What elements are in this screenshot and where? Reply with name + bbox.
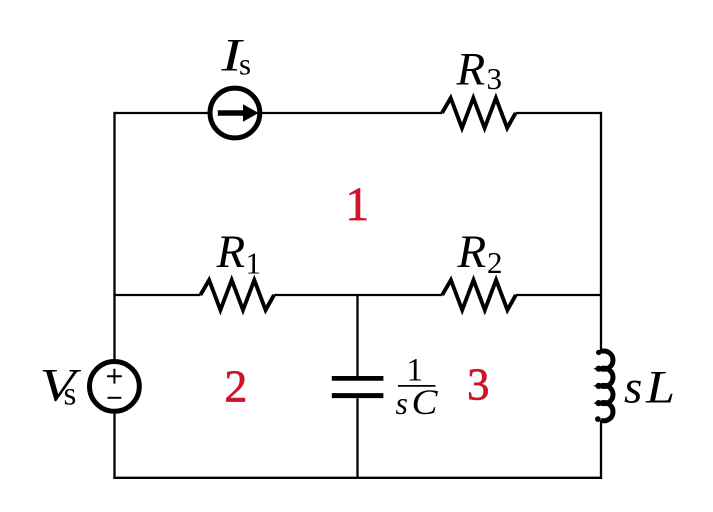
svg-text:1: 1 (246, 246, 262, 281)
wire middle-center segment (274, 294, 442, 296)
svg-text:1: 1 (345, 178, 369, 231)
wire left vertical upper (113, 112, 115, 295)
resistor R2 (442, 280, 516, 310)
wire bottom (113, 477, 602, 479)
label R1 (216, 226, 262, 281)
wire capacitor branch upper (356, 295, 358, 376)
wire left vertical lower (113, 414, 115, 479)
svg-text:s: s (239, 47, 251, 82)
wire left vertical middle (113, 295, 115, 359)
label Vs (40, 360, 83, 413)
svg-text:R: R (216, 226, 246, 278)
label Is (220, 30, 251, 82)
svg-text:2: 2 (224, 361, 247, 412)
svg-text:R: R (457, 226, 487, 278)
svg-text:L: L (645, 361, 675, 413)
current source Is (210, 88, 260, 138)
svg-text:2: 2 (487, 245, 503, 280)
resistor R1 (200, 280, 274, 310)
wire top-middle segment (262, 112, 442, 114)
label 1/sC (396, 353, 439, 422)
wire middle-left segment (113, 294, 200, 296)
wire right vertical middle (600, 295, 602, 352)
svg-text:s: s (64, 377, 77, 413)
capacitor C (332, 378, 384, 395)
label R2 (457, 226, 503, 280)
label R3 (456, 44, 503, 96)
resistor R3 (442, 98, 516, 128)
wire top-right segment (516, 112, 601, 114)
wire middle-right segment (516, 294, 602, 296)
svg-text:3: 3 (487, 61, 503, 96)
wire right vertical upper (600, 112, 602, 295)
svg-text:s: s (396, 385, 408, 421)
svg-text:s: s (624, 361, 642, 413)
svg-text:3: 3 (467, 360, 490, 410)
voltage source Vs (90, 362, 140, 412)
svg-text:R: R (456, 44, 486, 96)
wire capacitor branch lower (356, 398, 358, 478)
svg-text:C: C (412, 382, 439, 422)
wire top-left segment (115, 112, 209, 114)
wire right vertical lower (600, 420, 602, 479)
inductor L (595, 350, 613, 422)
